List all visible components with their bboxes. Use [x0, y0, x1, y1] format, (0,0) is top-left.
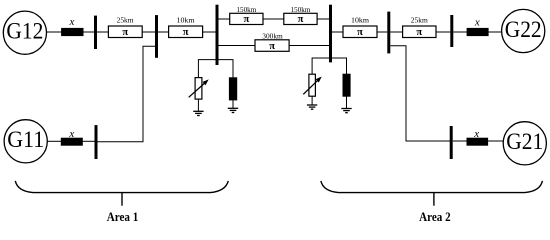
- wire C1 to ground: [232, 100, 234, 108]
- brace Area 1: [15, 181, 228, 193]
- wire between 150km lines: [263, 18, 284, 20]
- pi-line 25km (right): [403, 26, 436, 38]
- ground G-C1: [228, 108, 238, 112]
- wire bus B5 down to bus B8: [390, 46, 450, 141]
- wire G11 to X3: [47, 140, 61, 142]
- wire bus B7 up to bus B2: [98, 46, 156, 141]
- svg-text:G21: G21: [506, 129, 543, 154]
- wire C2 to ground: [346, 96, 348, 108]
- wire bus B6 to X2: [453, 31, 467, 33]
- svg-text:x: x: [473, 128, 479, 140]
- svg-text:x: x: [474, 17, 480, 29]
- svg-text:π: π: [244, 14, 250, 25]
- wire bus B5 to 25km right: [390, 31, 402, 33]
- shunt tee wire at bus B3: [198, 60, 233, 78]
- wire G12 to X1: [47, 31, 62, 33]
- svg-text:G12: G12: [6, 19, 43, 44]
- wire bus B8 to X4: [453, 140, 467, 142]
- pi-line 25km (left): [108, 26, 142, 38]
- svg-text:25km: 25km: [117, 16, 134, 25]
- svg-text:π: π: [357, 27, 363, 38]
- generator G22: [502, 9, 545, 52]
- wire 300km to bus B4: [289, 45, 329, 47]
- svg-text:150km: 150km: [237, 5, 257, 14]
- wire 150km second to bus B4: [317, 18, 329, 20]
- wire 10km right to bus B5: [377, 31, 387, 33]
- ground G-L2: [307, 105, 317, 109]
- svg-text:π: π: [298, 14, 304, 25]
- variable reactor L1: [195, 78, 202, 100]
- transformer X1: [62, 28, 83, 35]
- load C1: [229, 78, 236, 100]
- svg-text:x: x: [69, 16, 75, 28]
- svg-text:π: π: [269, 41, 275, 52]
- svg-text:10km: 10km: [177, 16, 195, 25]
- pi-line 150km (first): [230, 13, 263, 24]
- bus B3: [216, 5, 219, 65]
- svg-text:150km: 150km: [291, 5, 311, 14]
- ground G-L1: [193, 111, 203, 115]
- bus B1: [94, 16, 97, 49]
- transformer X2: [467, 28, 488, 35]
- wire L2 to ground: [311, 96, 313, 105]
- wire bus B1 to line 25km: [97, 31, 108, 33]
- arrow of L1: [189, 83, 205, 97]
- wire X4 to G21: [488, 140, 504, 142]
- wire X3 to bus B7: [82, 140, 94, 142]
- svg-text:G11: G11: [7, 127, 44, 152]
- pi-line 300km: [255, 40, 289, 52]
- svg-text:25km: 25km: [411, 16, 428, 25]
- arrow of L2: [303, 80, 318, 94]
- shunt tee wire at bus B4: [312, 58, 346, 74]
- pi-line 10km (right): [343, 26, 377, 38]
- generator G21: [503, 122, 546, 165]
- bus B7: [95, 125, 98, 159]
- svg-text:Area 1: Area 1: [107, 209, 139, 224]
- svg-text:π: π: [183, 27, 189, 38]
- svg-text:x: x: [68, 128, 74, 140]
- bus B5: [387, 12, 390, 54]
- pi-line 10km (left): [169, 26, 203, 38]
- wire bus B3 to 300km: [219, 45, 256, 47]
- transformer X4: [467, 138, 488, 145]
- transformer X3: [61, 138, 82, 145]
- svg-text:π: π: [416, 27, 422, 38]
- generator G12: [3, 11, 46, 54]
- svg-text:300km: 300km: [262, 31, 283, 40]
- wire bus B2 to line 10km: [158, 31, 169, 33]
- svg-text:π: π: [122, 27, 128, 38]
- load C2: [343, 74, 350, 96]
- wire 10km to bus B3: [203, 31, 216, 33]
- wire 25km right to bus B6: [436, 31, 450, 33]
- svg-text:10km: 10km: [351, 16, 369, 25]
- svg-text:G22: G22: [505, 17, 542, 42]
- wire bus B4 to 10km right: [332, 31, 343, 33]
- wire 25km to bus B2: [142, 31, 155, 33]
- wire bus B3 to 150km first: [219, 18, 230, 20]
- bus B4: [329, 5, 332, 63]
- pi-line 150km (second): [284, 13, 317, 24]
- variable reactor L2: [309, 74, 316, 96]
- wire X1 to bus B1: [83, 31, 94, 33]
- brace Area 2: [321, 181, 543, 193]
- wire L1 to ground: [197, 99, 199, 111]
- svg-text:Area 2: Area 2: [419, 209, 451, 224]
- ground G-C2: [341, 109, 351, 113]
- generator G11: [4, 120, 47, 163]
- bus B8: [450, 126, 453, 159]
- wire X2 to G22: [488, 31, 501, 33]
- bus B2: [155, 15, 158, 58]
- bus B6: [450, 15, 453, 47]
